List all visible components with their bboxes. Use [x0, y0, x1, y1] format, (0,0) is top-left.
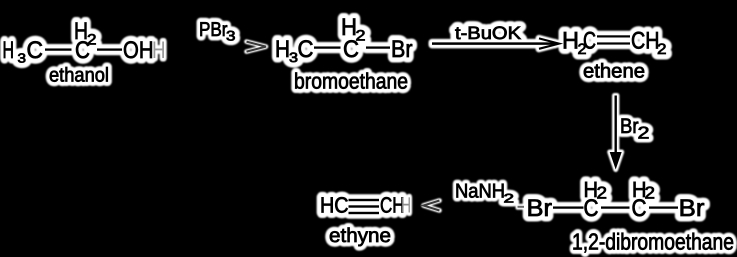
ethyne triple bond middle — [349, 205, 380, 207]
halo: ethyne triple bond middle — [349, 205, 380, 207]
svg-text:2: 2 — [645, 184, 656, 203]
plus remnant dash — [518, 206, 525, 208]
halo: arrow 1 head (right) — [247, 42, 267, 52]
svg-text:H: H — [74, 18, 88, 45]
svg-text:t-BuOK: t-BuOK — [455, 23, 521, 43]
svg-text:H: H — [3, 37, 15, 64]
ethene double bond upper — [597, 35, 630, 37]
arrow 3 shaft (down) — [615, 96, 617, 153]
bromoethane bond C-C — [314, 46, 341, 48]
halo: bromoethane bond C-C — [314, 46, 341, 48]
bromoethane bond C-Br — [366, 46, 390, 48]
halo: ethene double bond upper — [597, 35, 630, 37]
dibromoethane bond Br-C — [553, 206, 584, 208]
svg-text:Br: Br — [527, 195, 553, 222]
halo: arrow 2 head (right) — [539, 38, 559, 48]
svg-text:NaNH: NaNH — [455, 181, 505, 203]
svg-text:2: 2 — [597, 184, 608, 203]
arrow 1 head (right) — [247, 42, 267, 52]
svg-text:2: 2 — [504, 192, 515, 206]
halo: ethanol bond C-O — [97, 48, 122, 50]
halo: arrow 4 head (left) — [424, 201, 440, 211]
halo: ethanol bond C-C — [45, 48, 72, 50]
halo: plus remnant dash — [518, 206, 525, 208]
halo: dibromoethane bond Br-C — [553, 206, 584, 208]
arrow 2 shaft — [432, 42, 555, 45]
svg-text:H: H — [401, 193, 411, 218]
svg-text:2: 2 — [356, 28, 366, 45]
ethene double bond lower — [597, 42, 630, 44]
arrow 2 head (right) — [539, 38, 559, 48]
svg-text:C: C — [583, 28, 596, 55]
svg-text:2: 2 — [87, 32, 97, 49]
svg-text:ethyne: ethyne — [329, 225, 391, 247]
svg-text:HC: HC — [320, 193, 349, 218]
halo: arrow 2 shaft — [432, 42, 555, 45]
svg-text:Br: Br — [679, 195, 705, 222]
svg-text:Br: Br — [391, 36, 413, 63]
halo: arrow 3 head (down) — [610, 152, 622, 170]
ethyne triple bond top — [349, 199, 380, 201]
svg-text:Br: Br — [620, 115, 639, 138]
svg-text:3: 3 — [18, 51, 27, 66]
halo: arrow 3 shaft (down) — [615, 96, 617, 153]
halo: ethene double bond lower — [597, 42, 630, 44]
svg-text:bromoethane: bromoethane — [294, 69, 408, 94]
dibromoethane bond C-C — [601, 206, 630, 208]
svg-text:2: 2 — [657, 41, 667, 58]
svg-text:ethanol: ethanol — [49, 64, 109, 86]
svg-text:C: C — [298, 36, 314, 63]
svg-text:C: C — [27, 37, 44, 64]
svg-text:2: 2 — [638, 124, 650, 143]
halo: dibromoethane bond C-Br — [649, 206, 678, 208]
arrow 3 head (down) — [610, 152, 622, 170]
dibromoethane bond C-Br — [649, 206, 678, 208]
svg-text:PBr: PBr — [199, 19, 228, 41]
svg-text:H: H — [562, 28, 579, 55]
halo: ethyne triple bond top — [349, 199, 380, 201]
svg-text:CH: CH — [631, 28, 660, 55]
halo: bromoethane bond C-Br — [366, 46, 390, 48]
halo: ethyne triple bond bottom — [349, 212, 380, 214]
svg-text:H: H — [152, 37, 166, 64]
halo: dibromoethane bond C-C — [601, 206, 630, 208]
svg-text:H: H — [275, 36, 290, 63]
svg-text:3: 3 — [226, 28, 236, 44]
ethanol bond C-O — [97, 48, 122, 50]
svg-text:1,2-dibromoethane: 1,2-dibromoethane — [572, 229, 734, 255]
ethanol bond C-C — [45, 48, 72, 50]
arrow 4 head (left) — [424, 201, 440, 211]
svg-text:OH: OH — [123, 37, 154, 64]
ethyne triple bond bottom — [349, 212, 380, 214]
svg-text:ethene: ethene — [583, 61, 645, 83]
